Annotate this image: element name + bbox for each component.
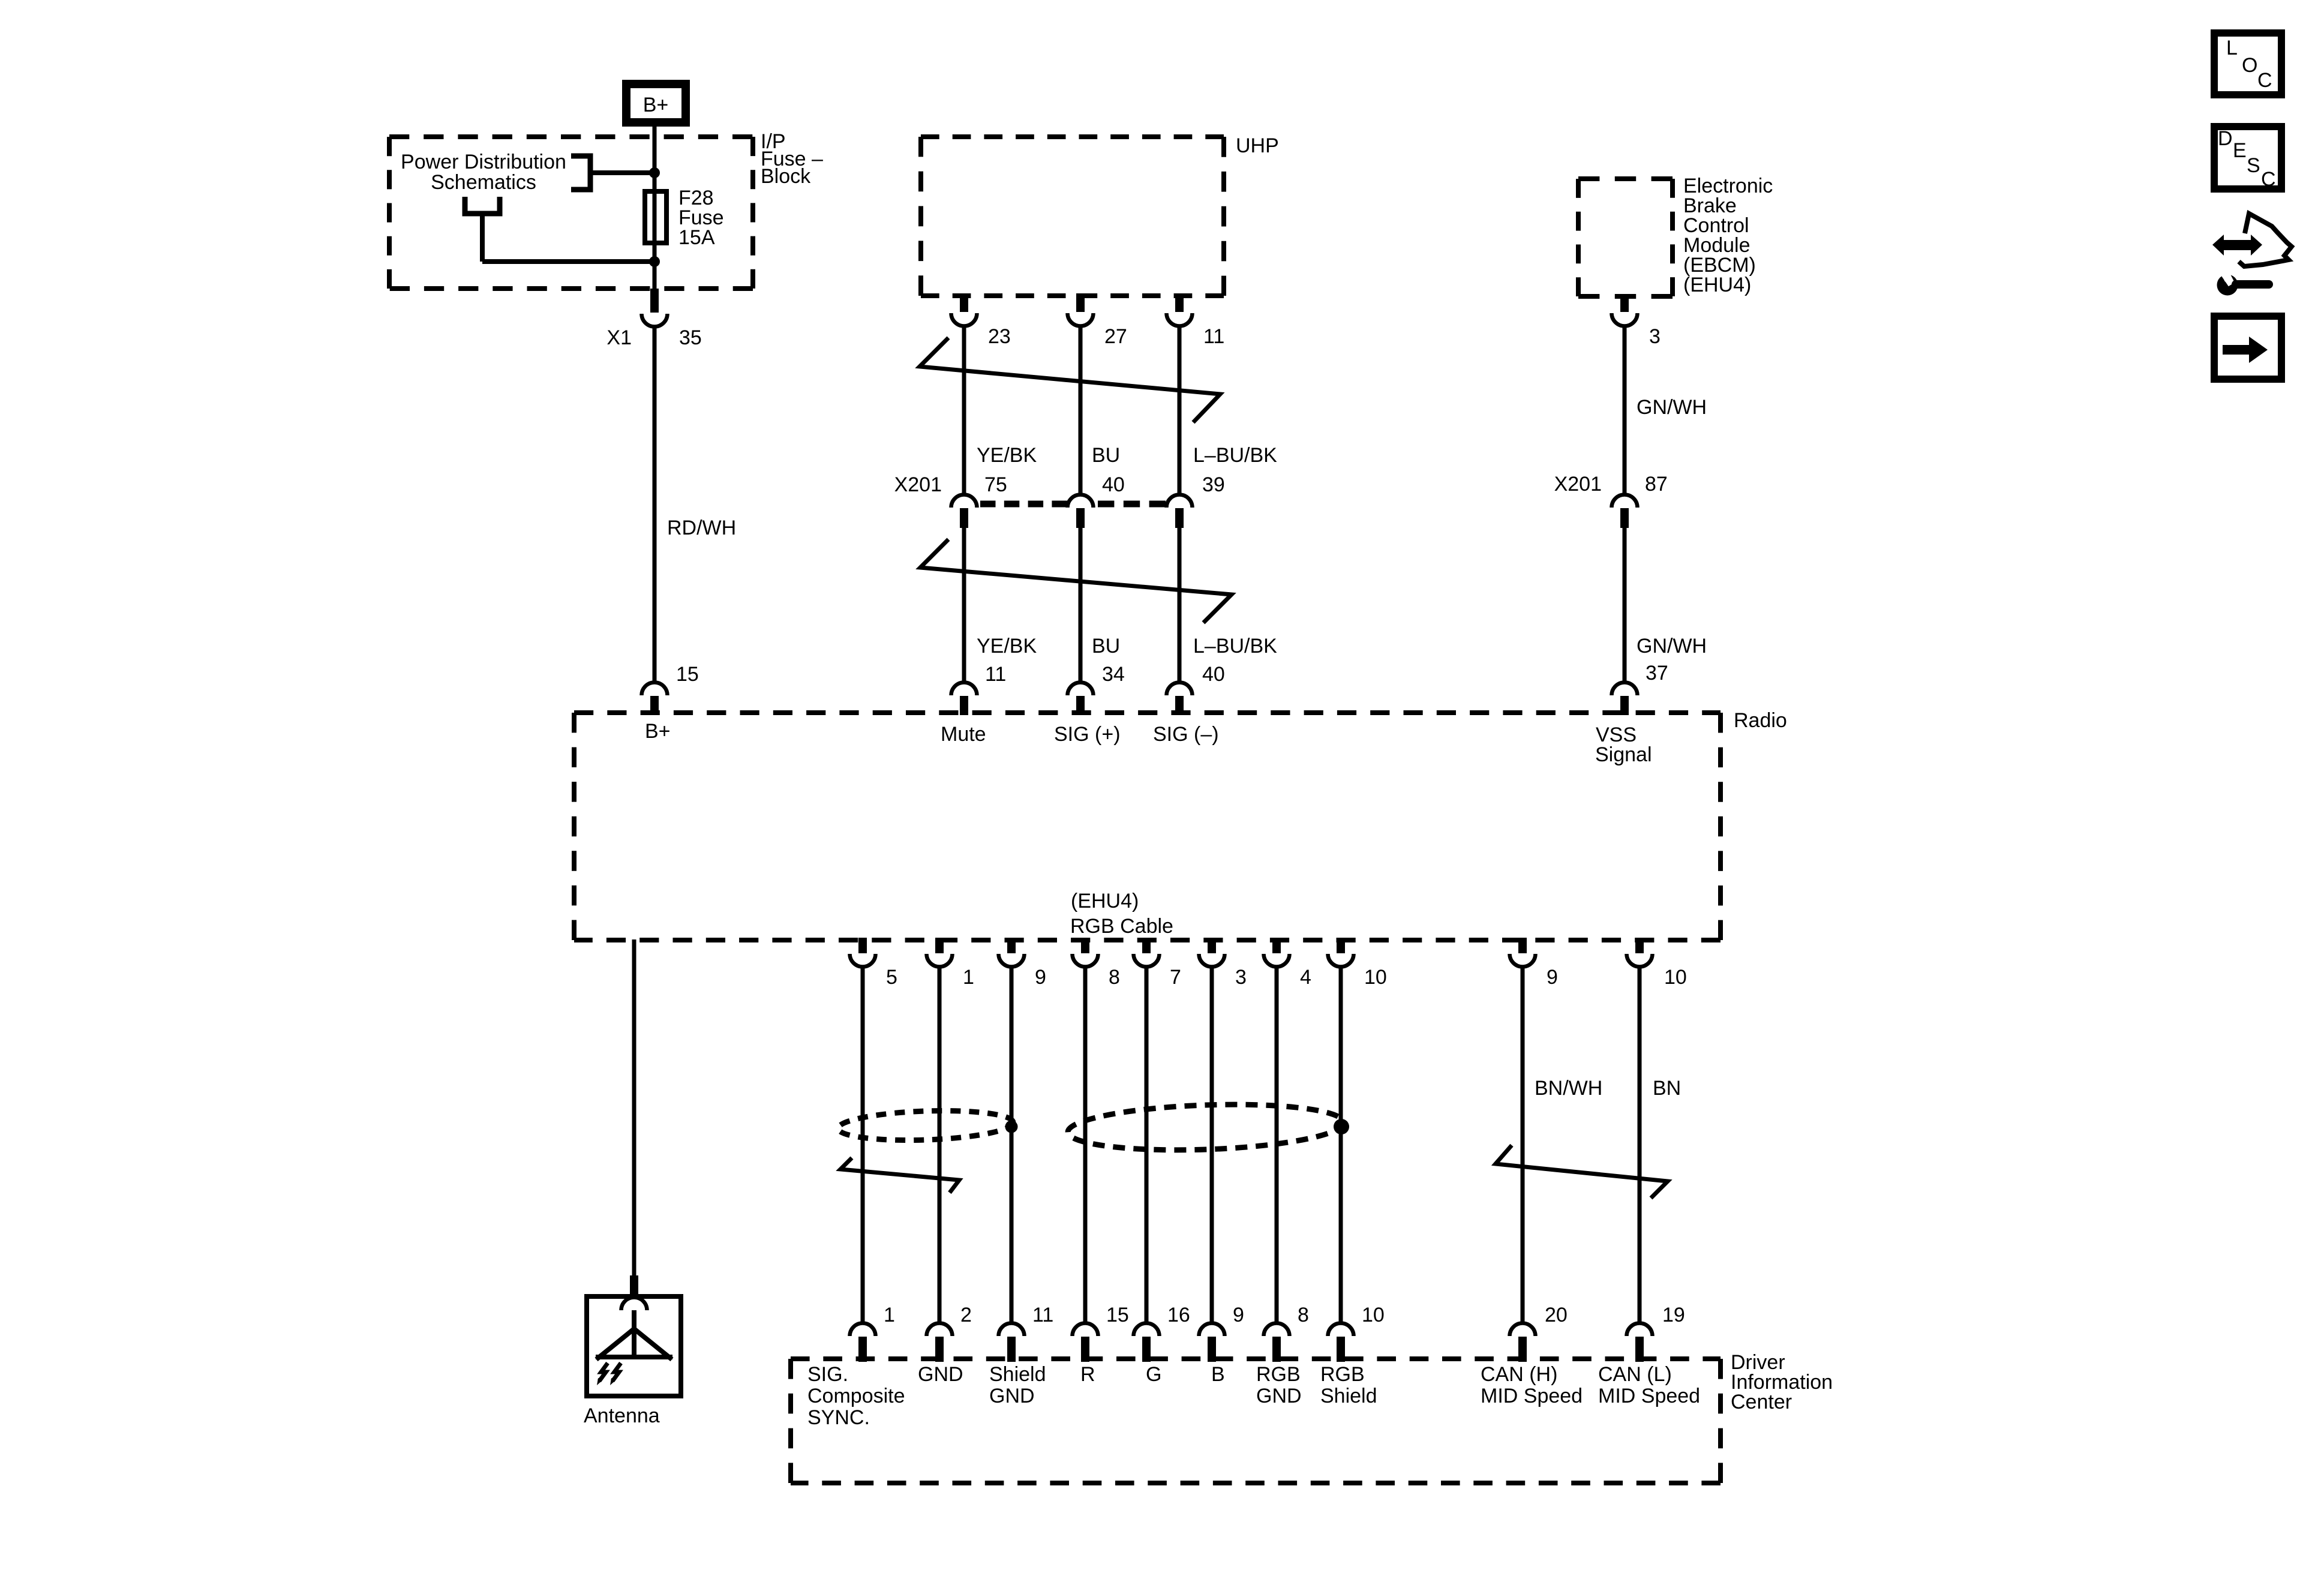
twisted pair symbol (composite) [840,1158,959,1193]
DIC connector pin 16 [1134,1323,1160,1337]
svg-text:Signal: Signal [1595,743,1652,766]
wire X201 39 to radio SIG- [1178,527,1182,683]
DIC connector pin 11 [999,1323,1025,1337]
svg-text:23: 23 [988,325,1011,348]
radio connector pin 15 (B+) [642,683,668,696]
svg-text:RGB: RGB [1256,1363,1301,1386]
wire CAN (L) BN [1638,966,1642,1322]
DIC connector pin 15 [1073,1323,1098,1337]
svg-text:10: 10 [1362,1304,1385,1326]
wire RGB conductor 1 [861,966,865,1322]
wire GN/WH (X201 to radio VSS) [1623,527,1627,683]
icon LOC box [2214,33,2281,95]
svg-text:3: 3 [1235,966,1247,989]
svg-text:40: 40 [1102,473,1125,496]
svg-text:X201: X201 [894,473,942,496]
wire X201 40 to radio SIG+ [1079,527,1083,683]
svg-text:2: 2 [960,1304,972,1326]
svg-text:X1: X1 [606,326,632,349]
svg-text:GND: GND [918,1363,963,1386]
shield ellipse (composite pair) [837,1108,1013,1143]
connector X201 pin 75 [951,495,977,508]
svg-text:Schematics: Schematics [431,171,536,194]
UHP box (dashed) [921,134,1224,139]
antenna connector pin [630,1275,638,1294]
radio RGB connector pin 5 [858,938,867,953]
wire bracket to node J1 [590,170,654,175]
svg-text:CAN (L): CAN (L) [1598,1363,1672,1386]
radio RGB connector pin 7 [1142,938,1151,953]
svg-text:Composite: Composite [807,1385,905,1407]
svg-text:8: 8 [1298,1304,1309,1326]
wire RGB conductor 10 [1339,966,1343,1322]
svg-text:1: 1 [963,966,974,989]
wire radio to antenna [632,939,636,1277]
radio RGB connector pin 10 [1337,938,1345,953]
radio CAN connector pin 9 [1518,938,1527,953]
DIC connector pin 9 [1199,1323,1225,1337]
svg-text:(EHU4): (EHU4) [1071,890,1139,912]
svg-text:Mute: Mute [941,723,986,746]
wire RGB conductor 16 [1145,966,1149,1322]
svg-text:YE/BK: YE/BK [977,444,1037,467]
wire UHP 27 to X201 40 [1079,326,1083,495]
svg-text:BN: BN [1653,1077,1681,1100]
svg-text:Center: Center [1731,1391,1792,1413]
radio RGB connector pin 3 [1208,938,1216,953]
antenna connector socket [621,1298,647,1311]
svg-text:37: 37 [1646,662,1668,685]
svg-text:L–BU/BK: L–BU/BK [1193,444,1277,467]
EBCM box (dashed) [1578,176,1673,181]
radio connector pin 34 (SIG+) [1068,683,1094,696]
svg-text:Block: Block [761,165,811,188]
svg-text:11: 11 [1203,325,1224,348]
svg-text:L–BU/BK: L–BU/BK [1193,635,1277,658]
bracket lower (to other schematic) [465,197,500,214]
svg-text:20: 20 [1545,1304,1568,1326]
DIC connector pin 8 [1264,1323,1290,1337]
radio RGB connector pin 1 [935,938,944,953]
svg-text:SIG (–): SIG (–) [1153,723,1219,746]
svg-text:Antenna: Antenna [584,1404,660,1427]
svg-text:27: 27 [1104,325,1127,348]
wire UHP 23 to X201 75 [962,326,966,495]
Radio box (dashed) [574,710,1721,715]
svg-text:GN/WH: GN/WH [1637,396,1707,419]
wire B+ to fuse [653,127,657,191]
svg-text:SYNC.: SYNC. [807,1406,870,1429]
svg-text:3: 3 [1649,325,1661,348]
svg-text:(EHU4): (EHU4) [1683,274,1751,296]
Driver Information Center box (dashed) [791,1356,1721,1361]
radio connector pin 11 (Mute) [951,683,977,696]
X201 connector dashed link [980,501,1067,508]
svg-text:GND: GND [1256,1385,1302,1407]
radio RGB connector pin 8 [1081,938,1089,953]
svg-text:B: B [1211,1363,1225,1386]
UHP connector pin 23 [960,293,968,312]
svg-text:C: C [2257,69,2272,92]
svg-text:10: 10 [1664,966,1687,989]
UHP connector pin 27 [1076,293,1085,312]
wire RGB conductor 8 [1275,966,1279,1322]
svg-text:SIG (+): SIG (+) [1054,723,1121,746]
svg-text:CAN (H): CAN (H) [1481,1363,1557,1386]
svg-text:GND: GND [989,1385,1035,1407]
svg-text:B+: B+ [643,94,669,116]
wire UHP 11 to X201 39 [1178,326,1182,495]
svg-text:10: 10 [1364,966,1387,989]
svg-text:Radio: Radio [1734,709,1787,732]
svg-text:YE/BK: YE/BK [977,635,1037,658]
svg-text:G: G [1146,1363,1161,1386]
svg-text:C: C [2261,168,2276,191]
svg-text:11: 11 [1032,1304,1053,1326]
svg-text:RD/WH: RD/WH [667,517,736,539]
twisted pair symbol (UHP lower) [920,539,1232,623]
svg-text:B+: B+ [645,720,671,743]
connector X1 pin 35 [650,289,659,313]
radio CAN connector pin 10 [1635,938,1644,953]
wire bracket2 down and to node J2 [480,214,485,262]
svg-text:19: 19 [1662,1304,1685,1326]
svg-text:BN/WH: BN/WH [1535,1077,1602,1100]
UHP connector pin 11 [1175,293,1184,312]
antenna box [587,1296,681,1396]
svg-text:75: 75 [984,473,1007,496]
icon next-page arrow box [2214,316,2281,379]
svg-text:11: 11 [985,663,1006,686]
connector X201 pin 40 [1068,495,1094,508]
svg-text:O: O [2242,54,2257,77]
radio RGB connector pin 9 [1007,938,1016,953]
svg-text:39: 39 [1202,473,1225,496]
svg-text:1: 1 [884,1304,895,1326]
svg-text:40: 40 [1202,663,1225,686]
power symbol B+ box [626,84,686,122]
svg-text:15: 15 [676,663,699,686]
wire X201 75 to radio Mute [962,527,966,683]
svg-text:8: 8 [1109,966,1120,989]
svg-text:E: E [2233,139,2247,162]
shield junction dot (RGB) [1334,1119,1349,1134]
wire RGB conductor 15 [1083,966,1088,1322]
svg-text:R: R [1080,1363,1095,1386]
connector X201 pin 39 [1167,495,1193,508]
svg-text:16: 16 [1167,1304,1190,1326]
svg-text:5: 5 [886,966,897,989]
wire RGB conductor 11 [1010,966,1014,1322]
DIC connector pin 19 [1627,1323,1653,1336]
svg-text:35: 35 [679,326,702,349]
DIC connector pin 20 [1510,1323,1536,1337]
antenna symbol [632,1310,636,1357]
svg-text:D: D [2218,127,2233,150]
svg-text:SIG.: SIG. [807,1363,848,1386]
junction J1 [649,167,660,178]
svg-text:GN/WH: GN/WH [1637,635,1707,658]
svg-text:34: 34 [1102,663,1125,686]
wire GN/WH (EBCM to X201) [1623,326,1627,495]
radio RGB connector pin 4 [1272,938,1281,953]
svg-text:RGB Cable: RGB Cable [1070,915,1173,938]
bracket to Power Distribution Schematics [571,156,590,190]
wire through fuse [653,173,657,290]
fuse F28 body [645,191,666,243]
shield ellipse (RGB bundle) [1067,1100,1344,1154]
svg-text:MID Speed: MID Speed [1481,1385,1583,1407]
wire RD/WH (X1-35 to radio B+) [653,326,657,683]
DIC connector pin 1 [850,1323,876,1337]
svg-text:7: 7 [1170,966,1181,989]
svg-text:L: L [2226,37,2238,59]
wire CAN (H) BN/WH [1521,966,1525,1322]
svg-text:Shield: Shield [1320,1385,1377,1407]
svg-text:UHP: UHP [1236,134,1279,157]
twisted pair symbol (CAN) [1496,1145,1668,1198]
shield junction dot (composite) [1005,1121,1018,1133]
twisted pair symbol (UHP upper) [920,338,1220,422]
I/P Fuse Block box (dashed) [389,134,753,139]
svg-text:15A: 15A [678,226,715,249]
svg-text:Shield: Shield [989,1363,1046,1386]
wire RGB conductor 2 [938,966,942,1322]
svg-text:X201: X201 [1554,473,1602,496]
svg-text:4: 4 [1300,966,1311,989]
antenna lightning bolts [599,1363,608,1381]
svg-text:RGB: RGB [1320,1363,1365,1386]
wire RGB conductor 9 [1210,966,1214,1322]
DIC connector pin 10 [1328,1323,1354,1337]
EBCM connector pin 3 [1620,296,1629,312]
svg-text:9: 9 [1233,1304,1244,1326]
svg-text:87: 87 [1645,473,1668,496]
junction J2 [649,256,660,267]
svg-text:Power Distribution: Power Distribution [401,151,566,173]
svg-text:9: 9 [1035,966,1046,989]
icon DESC box [2214,127,2281,189]
connector X201 pin 87 [1612,495,1638,508]
svg-text:BU: BU [1092,635,1120,658]
DIC connector pin 2 [927,1323,953,1337]
svg-text:15: 15 [1106,1304,1129,1326]
radio connector pin 37 (VSS) [1612,683,1638,696]
svg-text:BU: BU [1092,444,1120,467]
svg-text:S: S [2247,154,2260,177]
svg-text:MID Speed: MID Speed [1598,1385,1700,1407]
radio connector pin 40 (SIG-) [1167,683,1193,696]
icon part-locator (double arrow, outline, wrench) [2212,235,2262,256]
svg-text:9: 9 [1547,966,1558,989]
